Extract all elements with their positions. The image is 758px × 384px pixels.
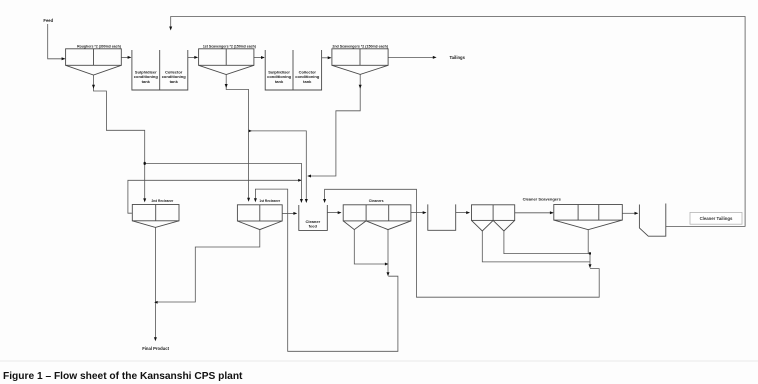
svg-text:Roughers *2 (300m3 each): Roughers *2 (300m3 each): [77, 44, 121, 48]
svg-text:Feed: Feed: [43, 18, 53, 23]
svg-text:tank: tank: [275, 79, 284, 84]
svg-text:tank: tank: [170, 79, 179, 84]
svg-text:feed: feed: [309, 224, 318, 229]
svg-text:tank: tank: [142, 79, 151, 84]
svg-text:1st Recleaner: 1st Recleaner: [259, 199, 280, 203]
svg-text:tank: tank: [303, 79, 312, 84]
svg-text:Cleaners: Cleaners: [369, 199, 384, 203]
svg-text:1st Scavengers *2 (150m3 each): 1st Scavengers *2 (150m3 each): [203, 44, 256, 48]
svg-text:Tailings: Tailings: [449, 55, 465, 60]
svg-text:Cleaner Scavengers: Cleaner Scavengers: [523, 196, 562, 201]
svg-text:Figure 1 – Flow sheet of the K: Figure 1 – Flow sheet of the Kansanshi C…: [3, 371, 243, 382]
svg-text:2nd Scavengers *2 (150m3 each): 2nd Scavengers *2 (150m3 each): [332, 44, 389, 48]
svg-text:Cleaner Tailings: Cleaner Tailings: [700, 216, 733, 221]
svg-text:Final Product: Final Product: [142, 346, 169, 351]
svg-text:2nd Recleaner: 2nd Recleaner: [152, 199, 175, 203]
